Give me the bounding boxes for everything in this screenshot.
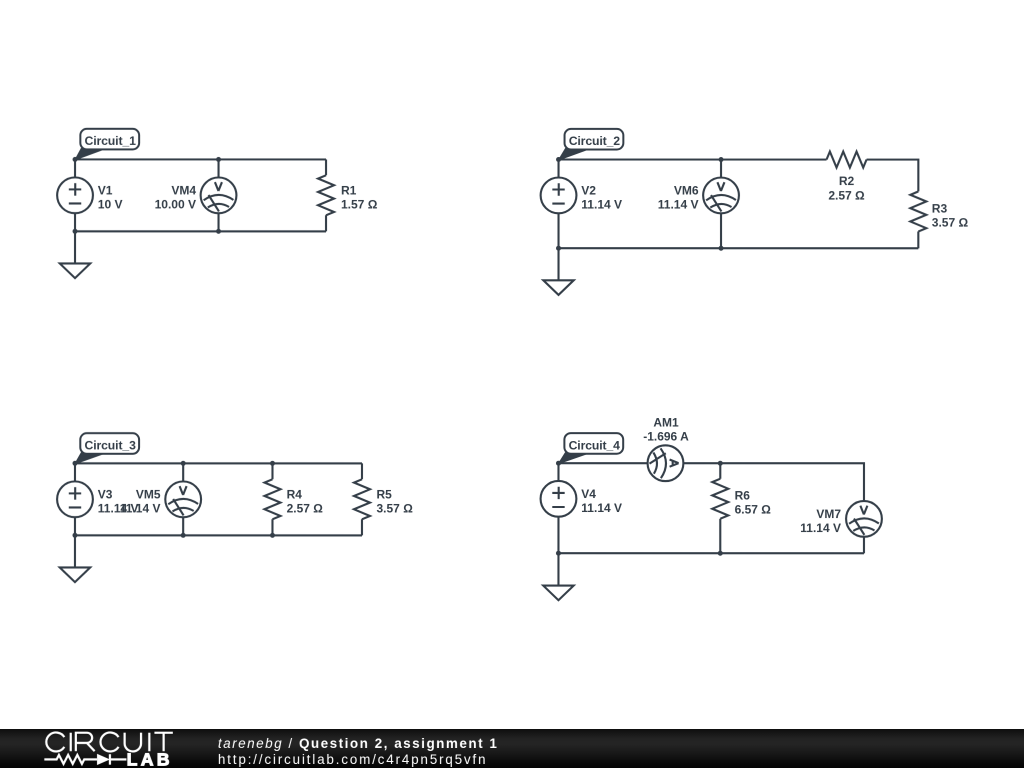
svg-text:VM5: VM5 — [136, 487, 161, 501]
svg-text:R5: R5 — [376, 487, 392, 501]
svg-text:AM1: AM1 — [653, 415, 679, 429]
svg-text:R2: R2 — [839, 174, 855, 188]
svg-text:Circuit_4: Circuit_4 — [569, 438, 621, 452]
svg-text:11.14 V: 11.14 V — [581, 501, 622, 515]
svg-text:VM6: VM6 — [674, 183, 699, 197]
svg-text:11.14 V: 11.14 V — [120, 502, 161, 516]
svg-text:3.57 Ω: 3.57 Ω — [932, 216, 969, 230]
svg-text:tarenebg / Question 2, assignm: tarenebg / Question 2, assignment 1 — [218, 736, 499, 751]
svg-text:R1: R1 — [341, 183, 357, 197]
svg-text:10.00 V: 10.00 V — [155, 198, 196, 212]
svg-text:2.57 Ω: 2.57 Ω — [287, 501, 324, 515]
svg-text:V4: V4 — [581, 487, 596, 501]
svg-text:V2: V2 — [581, 183, 596, 197]
svg-text:http://circuitlab.com/c4r4pn5r: http://circuitlab.com/c4r4pn5rq5vfn — [218, 752, 487, 767]
svg-text:10 V: 10 V — [98, 198, 123, 212]
svg-text:Circuit_3: Circuit_3 — [84, 439, 136, 453]
svg-text:Circuit_1: Circuit_1 — [85, 134, 137, 148]
svg-text:VM4: VM4 — [171, 183, 196, 197]
svg-text:1.57 Ω: 1.57 Ω — [341, 198, 378, 212]
svg-text:R3: R3 — [932, 201, 948, 215]
svg-text:R6: R6 — [735, 489, 751, 503]
svg-text:LAB: LAB — [127, 750, 173, 768]
svg-text:11.14 V: 11.14 V — [658, 198, 699, 212]
svg-text:3.57 Ω: 3.57 Ω — [376, 501, 413, 515]
svg-text:Circuit_2: Circuit_2 — [569, 134, 621, 148]
svg-text:2.57 Ω: 2.57 Ω — [828, 188, 865, 202]
svg-text:V1: V1 — [98, 183, 113, 197]
svg-text:11.14 V: 11.14 V — [800, 521, 841, 535]
svg-text:11.14 V: 11.14 V — [581, 198, 622, 212]
svg-text:VM7: VM7 — [816, 507, 841, 521]
svg-text:-1.696 A: -1.696 A — [643, 430, 689, 444]
svg-text:6.57 Ω: 6.57 Ω — [735, 503, 772, 517]
svg-text:V3: V3 — [98, 487, 113, 501]
svg-text:R4: R4 — [287, 487, 303, 501]
